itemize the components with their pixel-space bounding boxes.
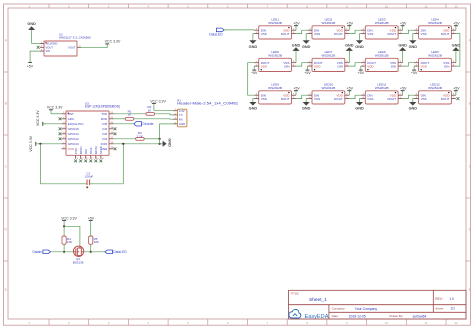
- svg-text:GND: GND: [452, 43, 461, 47]
- svg-text:GPIO14: GPIO14: [68, 132, 79, 136]
- LED11 WS2812B: [361, 91, 403, 104]
- svg-text:GPIO13: GPIO13: [68, 142, 79, 146]
- resistor R2: [146, 112, 155, 115]
- svg-text:WS2812B: WS2812B: [428, 21, 442, 25]
- wire RXD to R1: [114, 118, 126, 120]
- svg-text:RX: RX: [179, 117, 183, 121]
- svg-text:Sheet_1: Sheet_1: [309, 297, 327, 303]
- ground flag at LED2: [302, 34, 311, 49]
- svg-text:Dinside: Dinside: [143, 122, 154, 126]
- wire VCC to RST pin: [51, 113, 62, 115]
- svg-text:VDD: VDD: [421, 64, 428, 68]
- svg-text:WS2812B: WS2812B: [375, 53, 389, 57]
- wire LED8 DOUT to LED9 DIN: [248, 63, 255, 95]
- R4 designator: [67, 237, 72, 244]
- LED9 WS2812B: [254, 91, 296, 104]
- svg-text:GND: GND: [249, 45, 258, 49]
- svg-text:DOUT: DOUT: [281, 32, 290, 36]
- svg-text:+5V: +5V: [411, 71, 418, 75]
- svg-text:GND: GND: [345, 43, 354, 47]
- svg-text:Sheet:: Sheet:: [435, 307, 444, 311]
- LED7 designator: [322, 50, 336, 57]
- svg-text:GND: GND: [355, 45, 364, 49]
- svg-text:2.2K: 2.2K: [137, 134, 143, 138]
- C1 designator: [85, 171, 93, 178]
- wire LED10 DOUT to LED11 DIN: [349, 95, 361, 98]
- LED3 WS2812B: [361, 26, 403, 39]
- wire IO2 to R3: [114, 138, 136, 140]
- ground flag at LED8: [292, 43, 301, 62]
- svg-text:RXD: RXD: [101, 117, 108, 121]
- VCC 3.3V flag at level shifter: [61, 216, 77, 226]
- VCC 3.3V power flag at U2 output: [105, 40, 121, 44]
- wire VCC to EN pin: [43, 123, 62, 125]
- svg-text:DOUT: DOUT: [387, 97, 396, 101]
- title block: [289, 290, 467, 319]
- wire VCC to header 3.3V pin: [154, 110, 173, 112]
- svg-text:VCC 3.3V: VCC 3.3V: [29, 135, 33, 151]
- svg-text:WS2812B: WS2812B: [268, 53, 282, 57]
- wire LED1 DOUT to LED2 DIN: [296, 30, 308, 33]
- wire VCC rail down to C1 loop: [39, 144, 41, 184]
- svg-text:DOUT: DOUT: [281, 97, 290, 101]
- resistor R5: [89, 236, 93, 244]
- wire bottom rail right of C1: [90, 183, 123, 185]
- svg-text:GND: GND: [302, 45, 311, 49]
- svg-text:WS2812B: WS2812B: [428, 53, 442, 57]
- svg-text:DIN: DIN: [338, 64, 343, 68]
- svg-text:Header-Male-2.54_1x4_C09481: Header-Male-2.54_1x4_C09481: [177, 102, 238, 106]
- +5V flag at LED12: [453, 87, 460, 96]
- svg-text:10K: 10K: [67, 240, 72, 244]
- svg-text:RST: RST: [68, 112, 74, 116]
- net label DataLED: [105, 250, 127, 254]
- svg-text:10: 10: [385, 321, 389, 325]
- svg-text:+5V: +5V: [88, 216, 95, 220]
- LED6 WS2812B: [361, 58, 403, 71]
- svg-text:WS2812B: WS2812B: [322, 21, 336, 25]
- svg-text:CS0: CS0: [74, 148, 78, 154]
- svg-text:EN(CH-PD): EN(CH-PD): [68, 122, 84, 126]
- svg-text:+5V: +5V: [453, 22, 460, 26]
- ground flag at LED4: [409, 34, 418, 49]
- junction R3/GND rail: [159, 138, 161, 140]
- junction on VCC rail: [39, 143, 41, 145]
- svg-text:AMS1117-3.3_C426566: AMS1117-3.3_C426566: [59, 36, 91, 40]
- wire header GND down to GND rail: [160, 124, 173, 144]
- LED6 designator: [375, 50, 389, 57]
- svg-text:VSS: VSS: [261, 32, 267, 36]
- svg-text:VCC 3.3V: VCC 3.3V: [150, 99, 166, 103]
- svg-text:DOUT: DOUT: [387, 32, 396, 36]
- R1 designator: [128, 109, 132, 116]
- svg-text:+5V: +5V: [293, 22, 300, 26]
- +5V flag at LED9: [293, 87, 300, 96]
- LED5 WS2812B: [414, 58, 456, 71]
- +5V flag at LED1: [293, 22, 300, 31]
- svg-text:GPIO16: GPIO16: [68, 127, 79, 131]
- svg-text:VCC 3.3V: VCC 3.3V: [61, 216, 77, 220]
- R5 designator: [94, 237, 99, 244]
- svg-text:100uF: 100uF: [85, 174, 93, 178]
- VCC 3.3V flag at ESP GPIO13: [29, 135, 36, 151]
- wire VCC to GPIO13 pin: [36, 143, 62, 145]
- svg-text:1.0: 1.0: [449, 297, 454, 301]
- LED2 WS2812B: [308, 26, 350, 39]
- svg-text:GND: GND: [168, 138, 172, 147]
- svg-text:DOUT: DOUT: [334, 97, 343, 101]
- svg-text:VSS: VSS: [367, 97, 373, 101]
- wire TXD to R2: [114, 113, 146, 115]
- svg-text:GND: GND: [409, 107, 418, 111]
- svg-text:GND: GND: [355, 107, 364, 111]
- svg-text:2019-12-05: 2019-12-05: [349, 314, 366, 318]
- wire IO15 to GND symbol: [114, 143, 160, 145]
- +5V flag at LED8: [251, 66, 258, 75]
- svg-text:GND: GND: [292, 43, 301, 47]
- svg-text:DIN: DIN: [444, 64, 449, 68]
- svg-text:11: 11: [425, 321, 428, 325]
- wire IO5 to Dinside label: [114, 123, 134, 125]
- svg-text:12: 12: [454, 321, 458, 325]
- svg-text:ESP-12F(ESP8266MOD): ESP-12F(ESP8266MOD): [85, 105, 120, 109]
- svg-text:VSS: VSS: [421, 32, 427, 36]
- svg-text:1/1: 1/1: [451, 307, 456, 311]
- svg-text:+5V: +5V: [251, 71, 258, 75]
- svg-text:MOSI: MOSI: [94, 146, 98, 154]
- svg-text:WS2812B: WS2812B: [268, 21, 282, 25]
- wire Datain to Q1 source: [51, 251, 74, 253]
- svg-text:GND: GND: [409, 45, 418, 49]
- svg-text:IO2: IO2: [102, 137, 107, 141]
- junction IO15/GND rail: [159, 143, 161, 145]
- svg-text:3.3V: 3.3V: [179, 109, 185, 113]
- ground flag at U2 ADJ/GND: [27, 22, 36, 30]
- svg-text:IO9: IO9: [84, 149, 88, 154]
- LED11 designator: [375, 82, 389, 89]
- wire LED3 DOUT to LED4 DIN: [403, 30, 415, 33]
- svg-text:VDD: VDD: [314, 64, 321, 68]
- +5V flag at LED6: [358, 66, 365, 75]
- svg-text:VSS: VSS: [314, 97, 320, 101]
- capacitor C1: [86, 180, 89, 189]
- svg-text:DOUT: DOUT: [334, 32, 343, 36]
- no-connect X marks on ESP right pins: [114, 127, 117, 150]
- svg-text:IO4: IO4: [102, 127, 107, 131]
- svg-text:DOUT: DOUT: [441, 97, 450, 101]
- net label Datain: [32, 250, 50, 254]
- LED12 WS2812B: [414, 91, 456, 104]
- ground flag at LED10: [302, 99, 311, 111]
- svg-text:GND: GND: [249, 107, 258, 111]
- svg-text:+5V: +5V: [400, 22, 407, 26]
- ground flag at LED11: [355, 99, 364, 111]
- ground flag at LED3: [355, 34, 364, 49]
- svg-text:1K: 1K: [148, 108, 152, 112]
- svg-text:Drawn By:: Drawn By:: [389, 314, 403, 318]
- resistor R3: [136, 137, 145, 140]
- svg-text:WS2812B: WS2812B: [428, 86, 442, 90]
- transistor Q1: [73, 246, 84, 256]
- ground flag at LED12: [409, 99, 418, 111]
- svg-text:IO10: IO10: [89, 147, 93, 154]
- ground flag at LED6: [398, 43, 407, 62]
- no-connect X marks on ESP bottom pins: [74, 160, 102, 163]
- svg-text:11: 11: [425, 4, 428, 8]
- LED1 designator: [268, 17, 282, 24]
- svg-text:ADC: ADC: [68, 117, 75, 121]
- wire U2 VIN to +5V: [30, 51, 40, 62]
- svg-text:Company:: Company:: [332, 307, 346, 311]
- junction R4/Datain: [63, 251, 65, 253]
- svg-text:DIN: DIN: [391, 64, 396, 68]
- VCC 3.3V flag at ESP EN: [36, 110, 47, 126]
- svg-text:GPIO12: GPIO12: [68, 137, 79, 141]
- wire LED2 DOUT to LED3 DIN: [349, 30, 361, 33]
- wire LED5 DOUT to LED6 DIN: [403, 63, 415, 66]
- svg-text:VSS: VSS: [421, 97, 427, 101]
- ground flag at LED5: [452, 43, 461, 62]
- ground flag right of ESP: [160, 138, 172, 147]
- net label DataLED at LED1 input: [209, 28, 224, 36]
- svg-text:10: 10: [385, 4, 389, 8]
- wire LED6 DOUT to LED7 DIN: [349, 63, 361, 66]
- svg-text:TITLE:: TITLE:: [291, 292, 300, 296]
- ESP-12F module U3: [62, 111, 114, 160]
- wire LED11 DOUT to LED12 DIN: [403, 95, 415, 98]
- svg-text:DOUT: DOUT: [441, 32, 450, 36]
- no-connect X on U2 VOUT pin 2: [37, 46, 40, 49]
- svg-text:+5V: +5V: [347, 22, 354, 26]
- LED9 designator: [268, 82, 282, 89]
- wire R1 to header RX: [134, 118, 173, 120]
- svg-text:VSS: VSS: [261, 97, 267, 101]
- svg-text:DIN: DIN: [284, 64, 289, 68]
- H1 designator: [177, 99, 238, 106]
- svg-text:+5V: +5V: [400, 87, 407, 91]
- svg-text:DataLED: DataLED: [113, 250, 127, 254]
- LED12 designator: [428, 82, 442, 89]
- ground flag at LED1: [249, 34, 258, 49]
- svg-text:10K: 10K: [94, 240, 99, 244]
- svg-text:Date:: Date:: [332, 314, 339, 318]
- svg-text:VSS: VSS: [314, 32, 320, 36]
- svg-text:VDD: VDD: [261, 64, 268, 68]
- svg-text:+5V: +5V: [358, 71, 365, 75]
- +5V flag at LED11: [400, 87, 407, 96]
- svg-text:1K: 1K: [128, 113, 132, 117]
- header H1: [173, 109, 187, 127]
- +5V flag at LED5: [411, 66, 418, 75]
- svg-text:VCC 3.3V: VCC 3.3V: [47, 106, 63, 110]
- LED8 WS2812B: [254, 58, 296, 71]
- svg-text:+5V: +5V: [347, 87, 354, 91]
- LED3 designator: [375, 17, 389, 24]
- LED5 designator: [428, 50, 442, 57]
- resistor R4: [62, 236, 66, 244]
- LED2 designator: [322, 17, 336, 24]
- LED10 designator: [322, 82, 336, 89]
- wire bottom rail left of C1: [40, 183, 86, 185]
- wire LED9 DOUT to LED10 DIN: [296, 95, 308, 98]
- +5V flag at LED4: [453, 22, 460, 31]
- svg-text:+5V: +5V: [304, 71, 311, 75]
- svg-text:GND: GND: [179, 122, 185, 126]
- svg-text:SCLK: SCLK: [99, 146, 103, 154]
- svg-text:BSS138: BSS138: [73, 260, 84, 264]
- wire U2 VOUT to VCC 3.3V: [81, 44, 107, 48]
- wire LED7 DOUT to LED8 DIN: [296, 63, 308, 66]
- svg-text:+5V: +5V: [293, 87, 300, 91]
- svg-text:Your Company: Your Company: [355, 307, 378, 311]
- +5V flag at level shifter: [88, 216, 95, 236]
- wire VCC to Q1 gate: [64, 226, 80, 246]
- svg-text:WS2812B: WS2812B: [322, 86, 336, 90]
- LED1 WS2812B: [254, 26, 296, 39]
- svg-text:EasyEDA: EasyEDA: [305, 314, 329, 320]
- LED8 designator: [268, 50, 282, 57]
- svg-text:WS2812B: WS2812B: [375, 21, 389, 25]
- svg-text:VCC 3.3V: VCC 3.3V: [36, 110, 40, 126]
- ground flag at LED9: [249, 99, 258, 111]
- svg-text:Datain: Datain: [32, 250, 42, 254]
- no-connect X marks on ESP left pins: [59, 117, 62, 140]
- LED4 WS2812B: [414, 26, 456, 39]
- svg-text:IO15: IO15: [101, 142, 108, 146]
- LED4 designator: [428, 17, 442, 24]
- EasyEDA logo: [289, 309, 329, 320]
- svg-text:MISO: MISO: [79, 146, 83, 154]
- Q1 designator: [73, 257, 84, 264]
- wire DataLED to LED1 DIN: [224, 29, 254, 31]
- junction IO15/C1 rail: [122, 143, 124, 145]
- resistor R1: [125, 117, 134, 120]
- wire R3 to GND rail: [144, 138, 159, 140]
- svg-text:GND: GND: [398, 43, 407, 47]
- svg-text:WS2812B: WS2812B: [268, 86, 282, 90]
- net label Dinside: [134, 122, 154, 127]
- wire VCC to R4: [63, 226, 65, 236]
- wire GND rail up from C1 loop: [122, 144, 124, 184]
- junction below VCC flag: [63, 225, 65, 227]
- LED10 WS2812B: [308, 91, 350, 104]
- +5V flag at LED10: [347, 87, 354, 96]
- svg-text:serhan64: serhan64: [413, 314, 427, 318]
- svg-text:GND: GND: [302, 107, 311, 111]
- svg-text:GND: GND: [27, 22, 36, 26]
- +5V power flag at U2 input: [27, 62, 34, 68]
- wire R2 to header TX: [155, 114, 173, 115]
- svg-text:WS2812B: WS2812B: [375, 86, 389, 90]
- junction R5/DataLED: [90, 251, 92, 253]
- svg-text:IO5: IO5: [102, 122, 107, 126]
- svg-text:+5V: +5V: [453, 87, 460, 91]
- svg-text:TX: TX: [179, 113, 183, 117]
- svg-text:+5V: +5V: [27, 64, 34, 68]
- voltage regulator U2: [40, 41, 81, 56]
- svg-text:DataLED: DataLED: [209, 33, 223, 37]
- LED7 WS2812B: [308, 58, 350, 71]
- svg-text:VSS: VSS: [367, 32, 373, 36]
- +5V flag at LED7: [304, 66, 311, 75]
- svg-text:REV:: REV:: [435, 297, 442, 301]
- svg-text:WS2812B: WS2812B: [322, 53, 336, 57]
- svg-text:12: 12: [454, 4, 458, 8]
- R2 designator: [147, 105, 151, 112]
- svg-text:IO0: IO0: [102, 132, 107, 136]
- ground flag at LED7: [345, 43, 354, 62]
- VCC 3.3V flag at ESP RST: [47, 106, 63, 114]
- +5V flag at LED2: [347, 22, 354, 31]
- wire GND to U2 pin 1: [32, 30, 40, 44]
- U2 designator: [59, 32, 91, 39]
- wire LED4 DOUT to LED5 DIN: [456, 34, 460, 67]
- +5V flag at LED3: [400, 22, 407, 31]
- svg-text:TXD: TXD: [101, 112, 108, 116]
- VCC 3.3V flag at header: [150, 99, 166, 110]
- wire R5 to DataLED net: [90, 244, 92, 252]
- no-connect X on LED12 DOUT: [456, 97, 459, 100]
- R3 designator: [137, 131, 143, 138]
- wire R4 to Datain net: [63, 244, 65, 252]
- U3 designator: [85, 101, 120, 108]
- svg-text:VDD: VDD: [367, 64, 374, 68]
- wire Q1 drain to DataLED: [84, 251, 105, 253]
- svg-text:VCC 3.3V: VCC 3.3V: [105, 40, 121, 44]
